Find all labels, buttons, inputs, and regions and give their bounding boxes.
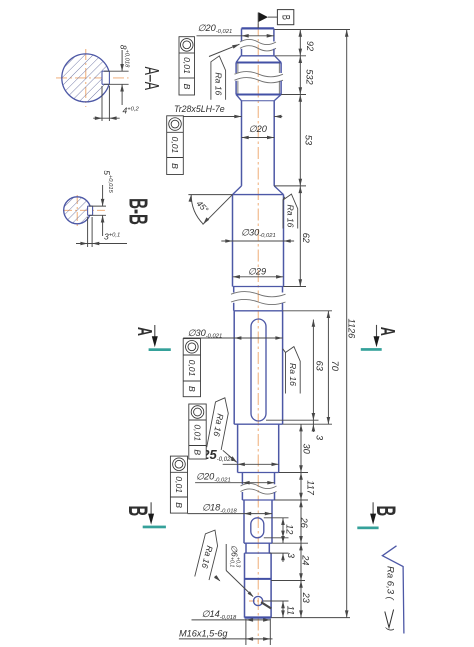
svg-text:A–A: A–A bbox=[140, 67, 163, 91]
svg-text:0,01: 0,01 bbox=[182, 57, 192, 74]
svg-text:92: 92 bbox=[305, 41, 315, 51]
svg-text:70: 70 bbox=[330, 361, 340, 372]
svg-text:): ) bbox=[385, 627, 396, 631]
svg-text:Ra 16: Ra 16 bbox=[285, 205, 295, 228]
svg-text:∅29: ∅29 bbox=[248, 266, 266, 276]
svg-text:A: A bbox=[133, 327, 156, 336]
svg-text:∅20: ∅20 bbox=[249, 124, 268, 134]
svg-text:B: B bbox=[193, 449, 203, 455]
svg-text:62: 62 bbox=[301, 233, 311, 243]
svg-text:53: 53 bbox=[304, 135, 314, 146]
svg-text:B: B bbox=[174, 502, 184, 508]
svg-text:1126: 1126 bbox=[347, 319, 357, 340]
svg-text:12: 12 bbox=[284, 524, 294, 534]
svg-text:23: 23 bbox=[301, 592, 311, 604]
svg-text:B: B bbox=[279, 15, 292, 20]
svg-text:Tr28x5LH-7e: Tr28x5LH-7e bbox=[174, 104, 225, 114]
svg-text:A: A bbox=[376, 327, 399, 336]
svg-text:117: 117 bbox=[306, 480, 316, 496]
svg-text:M16x1,5-6g: M16x1,5-6g bbox=[179, 628, 228, 638]
svg-text:B-B: B-B bbox=[124, 198, 153, 225]
svg-text:+0,1: +0,1 bbox=[229, 557, 235, 567]
svg-text:B: B bbox=[170, 163, 180, 169]
svg-text:532: 532 bbox=[304, 69, 314, 84]
svg-text:26: 26 bbox=[299, 517, 309, 529]
svg-text:11: 11 bbox=[285, 606, 295, 616]
svg-text:30: 30 bbox=[302, 443, 312, 454]
svg-text:B: B bbox=[123, 505, 154, 516]
svg-text:3: 3 bbox=[315, 435, 325, 441]
svg-text:0,01: 0,01 bbox=[187, 360, 197, 377]
svg-text:Ra 6,3 (: Ra 6,3 ( bbox=[385, 566, 396, 601]
svg-text:Ra 16: Ra 16 bbox=[288, 363, 298, 386]
svg-text:0,01: 0,01 bbox=[193, 424, 203, 441]
svg-text:0,01: 0,01 bbox=[174, 476, 184, 493]
svg-text:B: B bbox=[182, 84, 192, 90]
svg-text:24: 24 bbox=[300, 554, 310, 565]
svg-text:∅6: ∅6 bbox=[230, 545, 239, 557]
svg-text:Ra 16: Ra 16 bbox=[213, 72, 223, 95]
svg-text:63: 63 bbox=[315, 361, 325, 372]
svg-text:0,01: 0,01 bbox=[170, 137, 180, 154]
svg-text:B: B bbox=[187, 386, 197, 392]
svg-text:3: 3 bbox=[286, 553, 296, 559]
svg-text:B: B bbox=[371, 505, 402, 516]
